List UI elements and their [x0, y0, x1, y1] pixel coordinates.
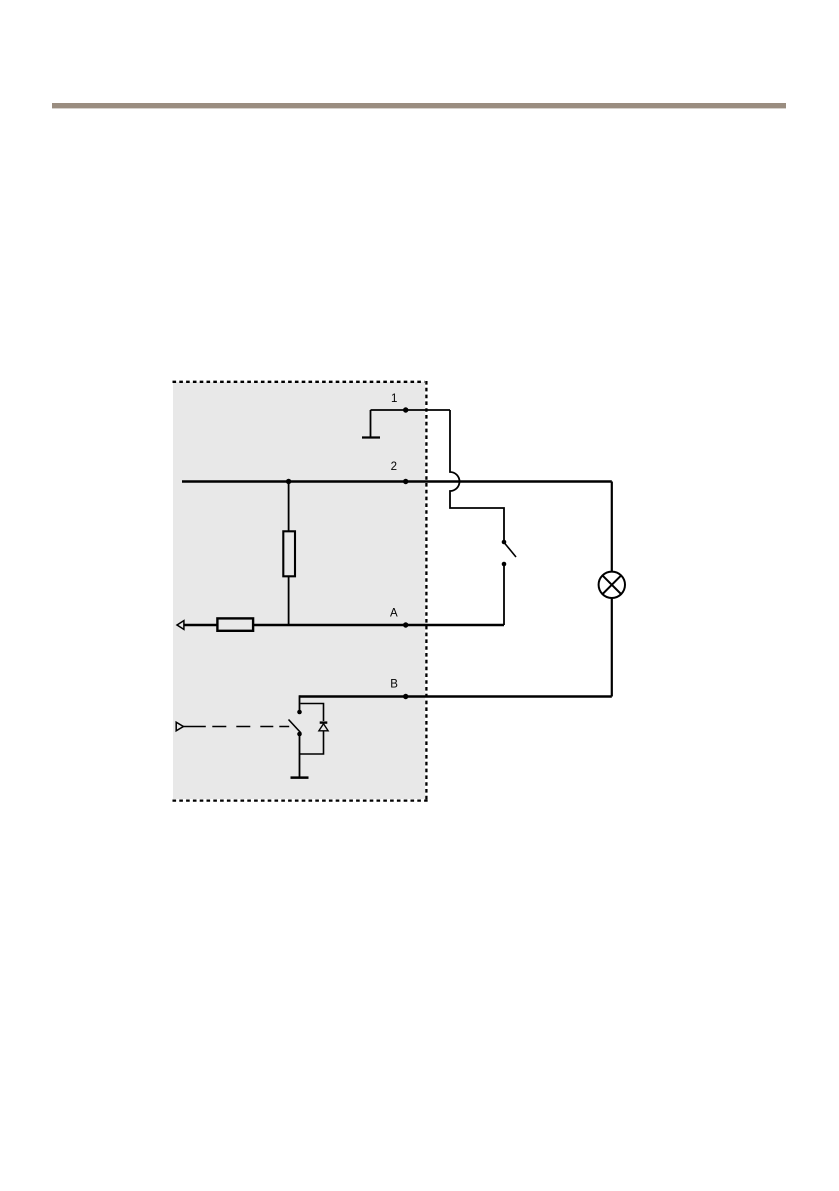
- lamp L1: [599, 572, 625, 598]
- flyback diode branch wire upper: [300, 704, 323, 722]
- junction bus 2 / resistor R1: [286, 479, 291, 484]
- switch S2 blade: [289, 720, 302, 734]
- arrow output A: [177, 621, 184, 630]
- svg-text:A: A: [390, 607, 398, 619]
- node pin 2: [403, 479, 408, 484]
- bus line 2: [182, 480, 612, 482]
- node pin 1: [403, 407, 408, 412]
- switch S1 blade: [505, 543, 517, 557]
- svg-text:1: 1: [391, 393, 397, 405]
- wire switch S1 to bus A: [503, 565, 505, 625]
- wire pin 1 horizontal: [371, 409, 451, 411]
- wire switch S2 to ground: [299, 735, 301, 777]
- device boundary box: [173, 381, 428, 802]
- wire bus 2 to lamp: [611, 482, 613, 572]
- bus line A: [184, 624, 505, 626]
- wire pin 1 drop with hop over bus 2: [450, 410, 504, 540]
- node B: [403, 694, 408, 699]
- wire lamp to bus B: [611, 598, 613, 697]
- svg-text:B: B: [390, 679, 398, 691]
- diode D1: [319, 723, 328, 731]
- bus line B: [300, 695, 612, 697]
- switch S1 upper contact: [502, 540, 507, 545]
- ground GND2: [291, 776, 309, 779]
- wire bus B to switch S2: [299, 695, 301, 712]
- wire resistor R1 to bus A: [288, 576, 290, 625]
- resistor R1 pull-up: [283, 531, 295, 576]
- switch S2 lower contact: [297, 732, 302, 737]
- wire bus 2 to resistor R1: [288, 482, 290, 532]
- switch S2 upper contact: [297, 710, 302, 715]
- dashed control line: [182, 726, 289, 728]
- horizontal rule: [52, 103, 786, 108]
- switch S1 lower contact: [502, 562, 507, 567]
- flyback diode branch wire lower: [300, 731, 324, 754]
- control input arrow: [176, 722, 183, 731]
- resistor R2 series: [217, 618, 253, 630]
- ground GND1: [362, 410, 380, 438]
- node A: [403, 622, 408, 627]
- svg-text:2: 2: [391, 461, 397, 473]
